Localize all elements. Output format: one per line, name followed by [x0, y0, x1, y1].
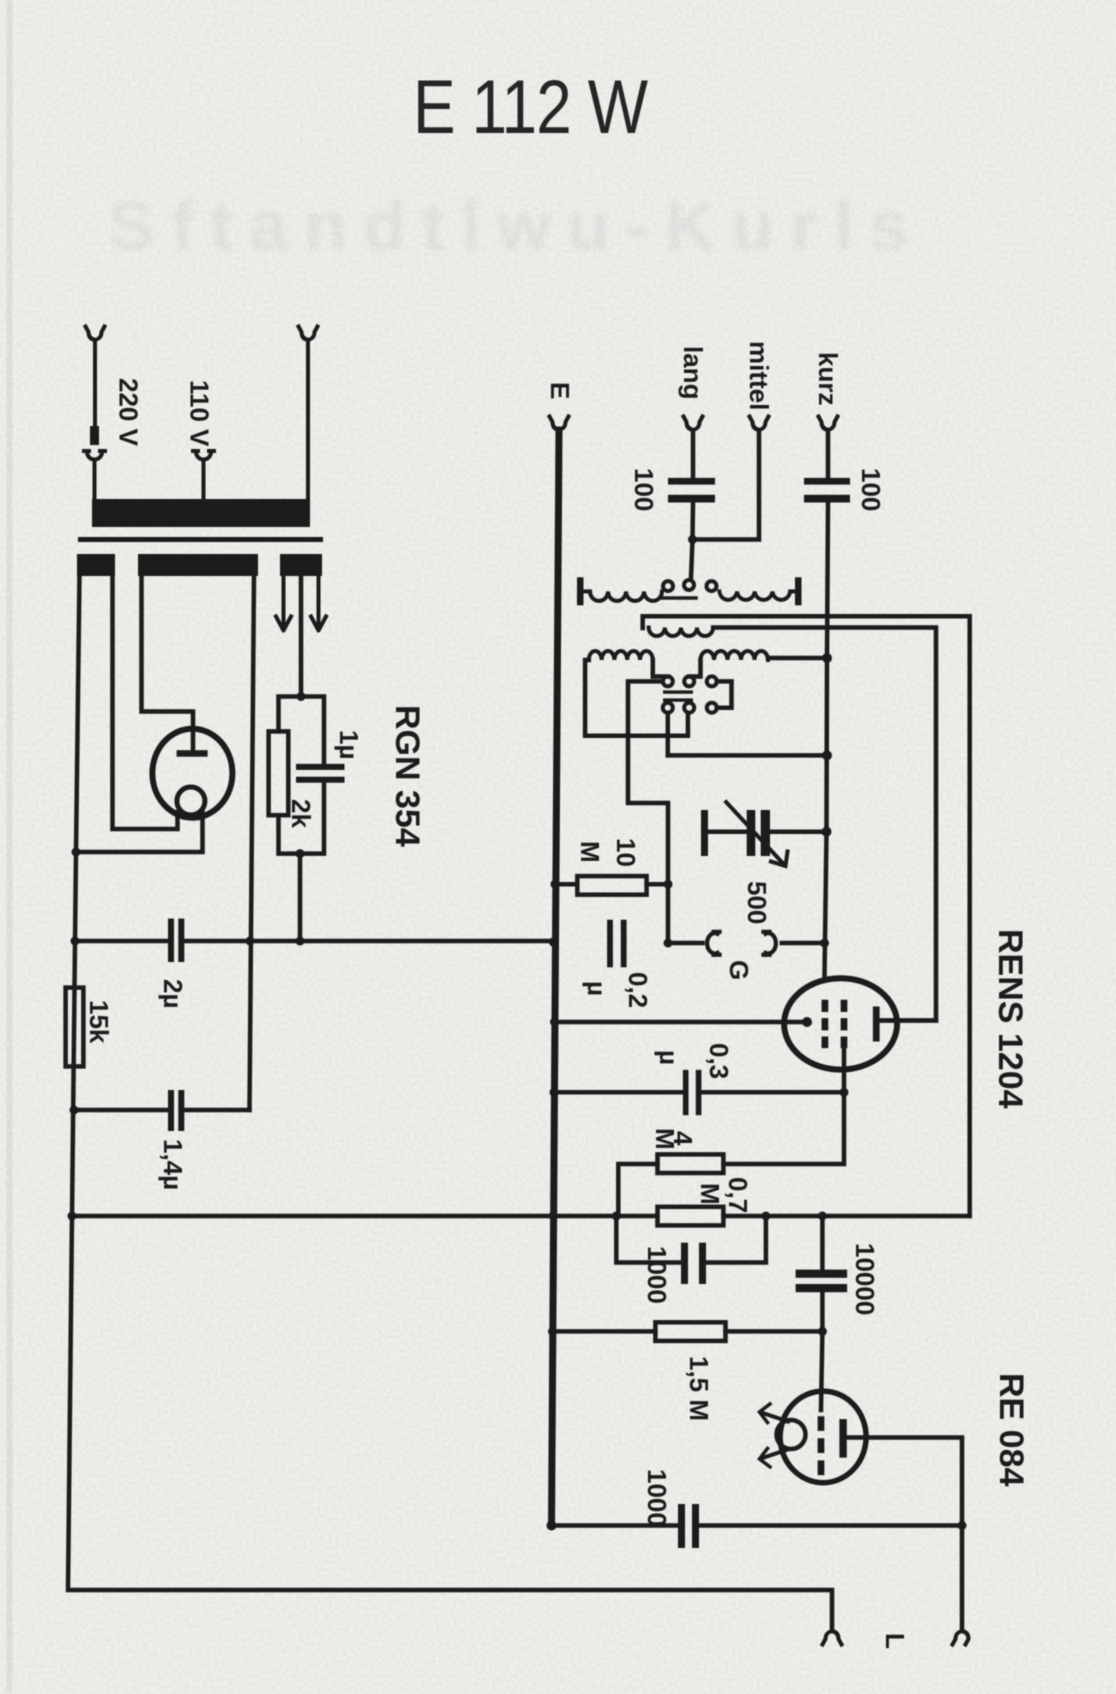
node: top of 2k/1u [297, 692, 306, 701]
node: B1 row / kurz [822, 750, 832, 760]
wire: tuning coil right end to kurz line [768, 656, 827, 661]
switch contact circle (ant 3) [707, 581, 717, 591]
wire: screen row 0,3u [555, 1090, 844, 1095]
node: anode line / output row [958, 1521, 967, 1530]
node: grid2 / 0,3u row [840, 1088, 849, 1097]
wire: 1,4u row y1110 [74, 1108, 250, 1113]
node: rail / filament return [72, 848, 81, 857]
node: 2k-1u leg / row941 [296, 937, 305, 946]
node: bottom of 2k/1u [296, 849, 305, 858]
transformer core [78, 537, 323, 542]
antenna coil right end bar [795, 577, 802, 605]
node: 10M / grid leak leg [664, 880, 673, 889]
node: lang/mittel junction [688, 535, 697, 544]
wire: tuning coil right left-end to switch A2 [689, 660, 700, 677]
RE heater arrow up [761, 1412, 788, 1421]
wire: 1,5M row [552, 1329, 822, 1334]
node: bus / 0,3u row [550, 1088, 559, 1097]
node: bus / G row [549, 937, 559, 947]
capacitor 100 (lang) plates [668, 478, 715, 485]
mains terminal fork right [299, 327, 318, 501]
switch contact circle (ant 2) [684, 580, 694, 590]
wire: kurz lead [826, 430, 831, 478]
tube RENS 1204 envelope [784, 978, 897, 1069]
node: E bus end [547, 1521, 557, 1531]
node: 10000 / bus [818, 1212, 827, 1221]
variable capacitor 500 right plates and wire [708, 829, 827, 834]
wire: RE anode to L terminal [847, 1438, 962, 1632]
heater arrow right [311, 574, 326, 631]
variable capacitor 500 left plate [701, 810, 708, 856]
node: HV leg / row941 [246, 937, 255, 946]
tube RE 084 envelope [780, 1391, 866, 1483]
node: rail / long bus [68, 1212, 77, 1221]
capacitor 10000 [820, 1216, 825, 1331]
resistor 0,7M [658, 1207, 724, 1226]
node: rail/row941 [71, 937, 80, 946]
wire: B+ row y941 (left of E bus) [76, 939, 552, 944]
110V tap hook [193, 451, 214, 500]
terminal fork L right (inverted) [953, 1631, 969, 1645]
terminal hook G right [764, 932, 776, 955]
secondary winding bar middle [138, 554, 258, 576]
node: 1,5M / RE grid [818, 1327, 827, 1336]
switch contact circle (ant 1) [663, 581, 673, 591]
wire: left rail from left secondary down to bottom and L terminal [68, 574, 832, 1631]
RGN anode plate [177, 750, 208, 757]
wire: left secondary right leg to RGN filament [113, 574, 178, 829]
resistor 2k [269, 731, 289, 815]
transformer primary winding bar [92, 499, 310, 527]
resistor 15k [66, 988, 84, 1067]
wire: 2k/1u bottom to B+ row [298, 854, 303, 941]
RENS grid 1 (dashed) [822, 1000, 829, 1048]
node: 500 / kurz [822, 827, 832, 837]
wire: feedback line A (coil to right vertical, down to bus) [643, 616, 970, 1216]
wire: RGN filament right lead to left rail [76, 813, 203, 853]
resistor 10M [577, 876, 646, 895]
node: 4M leg / bus [612, 1212, 621, 1221]
terminal fork E [550, 417, 569, 431]
terminal fork kurz [819, 417, 838, 431]
node: bus / cathode row [550, 1018, 559, 1027]
node: grid leak leg / G row [664, 939, 673, 948]
node: coil / kurz [822, 653, 832, 663]
node: RENS cathode dot [802, 1017, 812, 1027]
feedback coil [649, 628, 713, 637]
wire: 10M row from bus [555, 882, 668, 887]
node: bus / E bus [549, 1212, 558, 1221]
wire: middle secondary right leg (HV) down [250, 574, 255, 1110]
wire: lang lead [691, 430, 696, 478]
secondary winding bar right (filament) [280, 554, 322, 576]
RE filament circle [777, 1420, 806, 1449]
secondary winding bar left [77, 554, 115, 576]
wire: tuning coil left end down to switch bus [585, 660, 688, 736]
node: 1000 loop / bus [761, 1212, 770, 1221]
wire: line B coil to RENS anode [713, 628, 936, 1021]
terminal fork L left (inverted) [823, 1631, 842, 1645]
RE anode plate [839, 1419, 846, 1458]
capacitor 1000 (output) plates [678, 1504, 685, 1548]
wire: grid row with G terminal [668, 941, 703, 946]
RENS anode plate [873, 1007, 880, 1042]
tuning coil right section [701, 651, 769, 660]
wire: RENS anode lead [880, 1018, 936, 1023]
capacitor 0,2u plates [607, 920, 613, 968]
earth bus (thick) [552, 430, 560, 1526]
tuning coil left section [589, 651, 653, 660]
2k / 1u parallel network loop [279, 697, 325, 854]
wire: output row 1000 cap [552, 1523, 963, 1528]
resistor 4M [658, 1154, 724, 1173]
wire: 4M left to bus [618, 1164, 657, 1216]
wire: lang cap to junction and coil tap [691, 503, 693, 579]
rectifier tube RGN 354 envelope [152, 729, 232, 818]
capacitor 1,4u plates [168, 1090, 174, 1131]
terminal hook G left [707, 932, 719, 955]
antenna coil left half [584, 591, 663, 601]
node: bus / 1,5M row [548, 1327, 557, 1336]
terminal fork lang [684, 417, 703, 431]
hook under fuse [84, 451, 105, 500]
switch underline (ant) [661, 596, 696, 600]
wire: mittel lead to junction [693, 430, 760, 540]
antenna coil left end bar [577, 577, 584, 605]
wire: switch right bracket A3-B3 [717, 681, 732, 707]
RE grid (dashed) [818, 1416, 825, 1475]
heater arrow left [276, 574, 291, 631]
wire: tuning coil left right-end to switch A1 [653, 660, 668, 677]
wire: middle secondary left leg to RGN anode [142, 574, 194, 749]
wire: cathode row to RENS [555, 1020, 807, 1025]
mains terminal fork 220V [86, 327, 105, 428]
capacitor 2u plates [168, 919, 174, 962]
long bus y1216 [72, 1214, 970, 1219]
RGN filament circle [177, 787, 205, 815]
capacitor 1u plates [296, 764, 345, 770]
wire: switch left bracket A1 down to grid leak node [628, 681, 668, 943]
resistor 1,5M [655, 1322, 725, 1341]
wire: G right to kurz [782, 941, 825, 946]
node: rail / 1,4u row [70, 1106, 79, 1115]
wire: switch B1 to kurz line [668, 713, 827, 756]
capacitor 100 (kurz) plates [804, 478, 850, 485]
wire: RENS grid2 down to 4M [723, 1048, 844, 1164]
wire: filament winding centre tap down to 2k/1u [299, 574, 304, 697]
antenna coil right half [719, 591, 795, 599]
RENS grid 2 (dashed) [841, 1000, 848, 1048]
node: bus / 10M [551, 880, 560, 889]
RE heater arrow down [761, 1449, 788, 1458]
band switch wiper bars [663, 690, 693, 693]
band switch circles [663, 676, 673, 686]
terminal fork mittel [750, 417, 769, 431]
wire: RE 084 grid lead [821, 1331, 822, 1410]
wire: kurz line down to detector grid [825, 503, 829, 978]
node: G row / kurz [820, 939, 829, 948]
capacitor 1000 loop below 0,7M [616, 1216, 766, 1263]
variable capacitor arrow [726, 802, 783, 864]
capacitor 0,3u plates [683, 1070, 689, 1115]
fuse [90, 426, 99, 445]
